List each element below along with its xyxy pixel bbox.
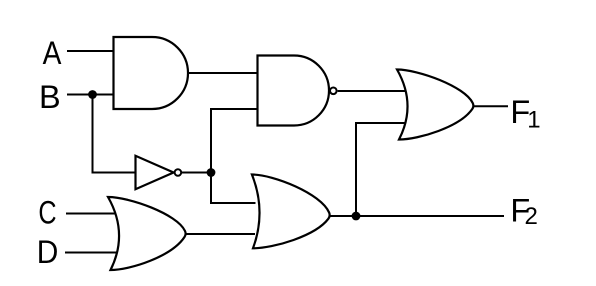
svg-text:F1: F1 xyxy=(510,94,540,133)
wire middle OR output to F2 xyxy=(328,215,504,217)
wire F2 node branch up to OR F1 xyxy=(356,123,412,216)
svg-text:D: D xyxy=(37,234,59,270)
wire OR F1 output xyxy=(472,105,508,107)
wire D input xyxy=(65,252,123,254)
wire B input xyxy=(67,94,113,96)
wire OR1 output to middle OR xyxy=(184,233,255,235)
svg-text:B: B xyxy=(39,79,61,115)
svg-text:A: A xyxy=(43,35,62,71)
wire A input xyxy=(67,50,113,52)
inverter bubble xyxy=(175,169,182,176)
junction dot F2 xyxy=(352,212,361,221)
svg-text:F2: F2 xyxy=(510,193,537,231)
wire AND output to NAND input xyxy=(187,72,258,74)
svg-text:C: C xyxy=(38,195,56,231)
wire inverter output xyxy=(180,172,211,174)
inverter triangle xyxy=(136,156,174,189)
NAND gate body xyxy=(258,56,330,126)
NAND gate bubble xyxy=(330,88,337,95)
junction dot N1 xyxy=(207,168,216,177)
AND gate xyxy=(114,37,189,109)
wire B branch down to inverter xyxy=(93,95,136,173)
junction dot B xyxy=(88,90,97,99)
OR gate F1 xyxy=(397,70,473,140)
wire node N1 vertical to NAND and middle OR xyxy=(211,109,258,203)
wire C input xyxy=(66,213,123,215)
OR gate middle xyxy=(252,175,330,249)
wire NAND output to OR F1 xyxy=(338,90,412,92)
OR gate C D xyxy=(108,197,186,270)
